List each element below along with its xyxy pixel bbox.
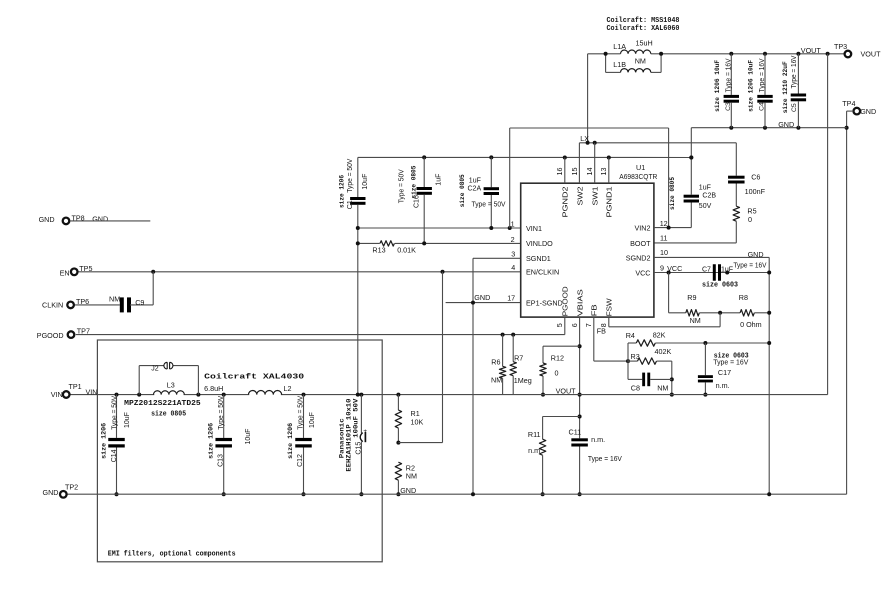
svg-text:10uF: 10uF <box>245 429 252 445</box>
svg-text:VCC: VCC <box>635 268 650 277</box>
svg-text:GND: GND <box>43 488 59 497</box>
svg-text:SW1: SW1 <box>591 187 600 206</box>
svg-text:TP4: TP4 <box>842 99 855 108</box>
svg-text:n.m.: n.m. <box>716 381 730 390</box>
svg-text:size 1206 10uF: size 1206 10uF <box>714 60 722 112</box>
svg-text:size 0805: size 0805 <box>669 177 677 210</box>
svg-text:U1: U1 <box>636 163 645 172</box>
svg-text:C12: C12 <box>297 454 304 467</box>
svg-text:10: 10 <box>660 248 668 257</box>
svg-text:C11: C11 <box>569 427 582 436</box>
svg-text:C15: C15 <box>355 442 362 455</box>
svg-text:17: 17 <box>507 294 515 303</box>
svg-text:TP2: TP2 <box>65 482 78 491</box>
svg-text:7: 7 <box>584 323 593 327</box>
svg-text:SGND1: SGND1 <box>526 254 551 263</box>
svg-text:11: 11 <box>660 234 667 243</box>
svg-text:A6983CQTR: A6983CQTR <box>619 172 657 181</box>
svg-text:50V: 50V <box>699 203 712 210</box>
svg-text:EP1-SGND: EP1-SGND <box>526 298 563 307</box>
svg-text:14: 14 <box>585 168 594 176</box>
svg-text:CLKIN: CLKIN <box>42 301 63 310</box>
svg-text:0.01K: 0.01K <box>397 245 416 254</box>
svg-text:size 1206: size 1206 <box>100 423 108 459</box>
svg-text:100nF: 100nF <box>745 187 766 196</box>
svg-text:MPZ2012S221ATD25: MPZ2012S221ATD25 <box>124 400 201 408</box>
svg-text:SGND2: SGND2 <box>626 253 651 262</box>
svg-text:J2: J2 <box>151 366 159 373</box>
svg-text:VOUT: VOUT <box>861 49 882 58</box>
svg-text:LX: LX <box>580 136 589 143</box>
svg-text:EMI filters, optional componen: EMI filters, optional components <box>108 550 236 558</box>
svg-text:PGND2: PGND2 <box>561 186 570 217</box>
svg-text:C5: C5 <box>791 103 798 112</box>
svg-text:0 Ohm: 0 Ohm <box>740 320 762 329</box>
svg-text:VIN2: VIN2 <box>635 223 651 232</box>
svg-text:Type = 50V: Type = 50V <box>111 395 118 429</box>
svg-text:L1A: L1A <box>613 42 626 51</box>
svg-text:Type = 50V: Type = 50V <box>298 395 305 429</box>
svg-text:1Meg: 1Meg <box>514 376 532 385</box>
svg-text:GND: GND <box>400 486 416 495</box>
svg-text:1uF: 1uF <box>721 267 733 274</box>
svg-text:GND: GND <box>474 293 490 302</box>
svg-text:TP5: TP5 <box>79 264 92 273</box>
svg-text:Type = 50V: Type = 50V <box>218 395 225 429</box>
svg-text:1: 1 <box>511 219 515 228</box>
svg-text:GND: GND <box>778 120 794 129</box>
svg-text:R13: R13 <box>372 246 385 255</box>
svg-text:GND: GND <box>748 250 764 259</box>
svg-text:1uF: 1uF <box>436 174 443 186</box>
svg-text:size 1206 10uF: size 1206 10uF <box>748 60 756 112</box>
svg-text:C16: C16 <box>414 195 421 208</box>
svg-text:C7: C7 <box>702 266 711 273</box>
svg-text:R12: R12 <box>551 354 564 363</box>
svg-text:FB: FB <box>597 326 606 335</box>
svg-text:BOOT: BOOT <box>630 239 651 248</box>
svg-text:Type = 16V: Type = 16V <box>725 58 732 92</box>
svg-text:NM: NM <box>690 316 701 325</box>
svg-text:VBIAS: VBIAS <box>575 289 584 316</box>
svg-text:6: 6 <box>570 323 579 327</box>
svg-text:PGOOD: PGOOD <box>561 286 570 316</box>
svg-text:size 0603: size 0603 <box>702 281 738 289</box>
svg-text:1uF: 1uF <box>469 178 481 185</box>
svg-text:C3: C3 <box>725 102 732 111</box>
svg-text:16: 16 <box>555 168 564 176</box>
svg-text:GND: GND <box>92 214 108 223</box>
svg-text:C1: C1 <box>347 200 354 209</box>
svg-text:PGOOD: PGOOD <box>37 331 64 340</box>
svg-text:EN/CLKIN: EN/CLKIN <box>526 268 559 277</box>
svg-text:Type = 50V: Type = 50V <box>472 202 506 209</box>
svg-text:10uF: 10uF <box>309 412 316 428</box>
svg-text:6.8uH: 6.8uH <box>204 384 223 393</box>
svg-text:0: 0 <box>748 215 752 224</box>
svg-text:R11: R11 <box>528 430 541 439</box>
svg-text:NM: NM <box>406 472 417 481</box>
svg-text:FB: FB <box>590 304 599 316</box>
svg-text:Coilcraft: MSS1048: Coilcraft: MSS1048 <box>607 17 680 25</box>
svg-text:R3: R3 <box>631 352 640 361</box>
svg-text:size 1206: size 1206 <box>287 423 295 459</box>
svg-text:TP7: TP7 <box>77 326 90 335</box>
svg-text:15: 15 <box>570 168 579 176</box>
svg-text:Coilcraft: XAL6060: Coilcraft: XAL6060 <box>607 25 680 33</box>
svg-text:GND: GND <box>39 215 55 224</box>
svg-text:EN: EN <box>60 268 70 277</box>
svg-text:VIN: VIN <box>86 387 98 396</box>
svg-text:NM: NM <box>635 56 646 65</box>
svg-text:size 0805: size 0805 <box>410 166 418 199</box>
svg-text:GND: GND <box>860 107 876 116</box>
svg-text:1uF: 1uF <box>699 184 711 191</box>
svg-text:VOUT: VOUT <box>801 46 822 55</box>
svg-text:R5: R5 <box>747 206 756 215</box>
svg-text:12: 12 <box>660 219 668 228</box>
svg-text:L2: L2 <box>284 384 292 393</box>
svg-text:VIN1: VIN1 <box>526 224 542 233</box>
svg-text:L3: L3 <box>167 381 175 390</box>
svg-text:402K: 402K <box>655 347 672 356</box>
svg-text:13: 13 <box>599 168 608 176</box>
svg-text:10uF: 10uF <box>124 412 131 428</box>
svg-text:C17: C17 <box>718 368 731 377</box>
svg-text:NM: NM <box>109 295 120 304</box>
svg-text:+: + <box>363 428 367 435</box>
svg-text:3: 3 <box>511 250 515 259</box>
svg-text:TP1: TP1 <box>69 382 82 391</box>
svg-text:R7: R7 <box>514 354 523 363</box>
svg-text:C14: C14 <box>111 449 118 462</box>
svg-text:SW2: SW2 <box>575 187 584 206</box>
svg-text:NM: NM <box>657 383 668 392</box>
svg-text:R9: R9 <box>687 293 696 302</box>
svg-text:2: 2 <box>511 235 515 244</box>
svg-text:Type = 16V: Type = 16V <box>791 55 798 88</box>
svg-text:Type = 16V: Type = 16V <box>713 360 748 367</box>
svg-text:100uF 50V: 100uF 50V <box>352 399 360 438</box>
svg-text:15uH: 15uH <box>636 39 653 48</box>
svg-text:R6: R6 <box>491 357 500 366</box>
svg-text:NM: NM <box>491 376 502 385</box>
svg-text:C6: C6 <box>751 173 760 182</box>
svg-text:C2A: C2A <box>468 186 482 193</box>
svg-text:n.m.: n.m. <box>591 435 605 444</box>
svg-text:VIN: VIN <box>51 390 63 399</box>
svg-text:C4: C4 <box>759 102 766 111</box>
svg-text:Type = 50V: Type = 50V <box>347 158 354 192</box>
svg-text:10K: 10K <box>411 417 424 426</box>
svg-text:Type = 16V: Type = 16V <box>759 58 766 92</box>
svg-text:C13: C13 <box>217 454 224 467</box>
svg-text:Type = 16V: Type = 16V <box>733 262 766 269</box>
svg-text:PGND1: PGND1 <box>605 186 614 217</box>
svg-text:VINLDO: VINLDO <box>526 239 553 248</box>
svg-text:size 0805: size 0805 <box>151 411 186 419</box>
svg-text:Type = 16V: Type = 16V <box>588 454 622 463</box>
svg-text:C2B: C2B <box>702 192 716 199</box>
svg-text:size 0805: size 0805 <box>459 174 467 207</box>
svg-text:10uF: 10uF <box>362 174 369 190</box>
svg-text:n.m: n.m <box>528 446 540 455</box>
svg-text:FSW: FSW <box>605 298 614 316</box>
svg-text:L1B: L1B <box>613 60 626 69</box>
svg-text:TP3: TP3 <box>834 42 847 51</box>
svg-text:82K: 82K <box>653 331 666 340</box>
svg-text:size 1206: size 1206 <box>208 423 216 459</box>
svg-text:C8: C8 <box>631 383 640 392</box>
svg-text:C9: C9 <box>135 298 144 307</box>
svg-text:R4: R4 <box>626 331 635 340</box>
svg-text:9: 9 <box>660 264 664 273</box>
svg-text:R8: R8 <box>739 293 748 302</box>
svg-text:size 1206: size 1206 <box>338 175 346 208</box>
svg-text:5: 5 <box>555 323 564 327</box>
svg-text:Type = 50V: Type = 50V <box>399 169 406 203</box>
svg-text:4: 4 <box>511 263 515 272</box>
svg-text:size 1210 22uF: size 1210 22uF <box>782 61 790 113</box>
svg-text:0: 0 <box>555 368 559 377</box>
svg-text:Coilcraft XAL4030: Coilcraft XAL4030 <box>204 373 305 381</box>
